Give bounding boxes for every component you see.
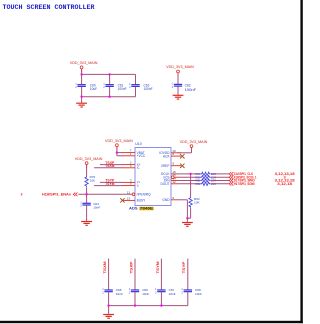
svg-text:AUX: AUX [163, 154, 170, 158]
ground (C62) [173, 95, 184, 100]
wire TSXP to C66 [134, 259, 136, 290]
svg-text:BUSY: BUSY [137, 199, 147, 203]
net label TSYM [105, 182, 115, 186]
pin 11 bubble [132, 193, 135, 196]
net label TSYP (rotated) [182, 261, 186, 274]
node ground rail [109, 305, 188, 307]
no-connect X pin 8 [180, 154, 184, 158]
U10 refdes [135, 142, 142, 146]
wire C63 bottom [135, 87, 137, 97]
wire to pin 1 [117, 155, 123, 157]
svg-text:TSXP: TSXP [129, 261, 133, 274]
sheet refs 3,12,13,18 [275, 179, 295, 183]
svg-text:10nF: 10nF [93, 205, 100, 209]
resistor R62 [189, 197, 201, 208]
svg-text:10K: 10K [194, 200, 200, 204]
U10 right pin stubs [171, 153, 181, 200]
net label F18/SPI1_SCS0_1 [234, 175, 257, 179]
wire C60 bottom [81, 87, 83, 97]
wire R70 to junction [86, 187, 88, 194]
svg-text:100nF: 100nF [118, 87, 127, 91]
svg-text:H16/SPI1_ENAx: H16/SPI1_ENAx [42, 193, 71, 197]
svg-text:13: 13 [127, 196, 131, 200]
svg-text:DOUT: DOUT [160, 182, 169, 186]
resistor R049 [195, 172, 216, 176]
wire TSXM to C65 [108, 259, 110, 290]
junction dot [108, 96, 110, 98]
capacitor C67 [155, 288, 176, 296]
junction dot GND/R62 [186, 217, 188, 219]
offpage chevron ENAx [73, 193, 77, 197]
net label H16/SPI1_ENAx [42, 193, 71, 197]
wire DCLK junction to R62 [190, 174, 192, 197]
sheet ref 3 [21, 193, 23, 197]
svg-text:VDD_3V3_MAIN: VDD_3V3_MAIN [105, 139, 133, 143]
resistor R052 [195, 182, 216, 186]
wire C61 top [109, 74, 111, 84]
U10 pin numbers [127, 149, 176, 201]
part number label [129, 207, 154, 211]
svg-text:3,12,18: 3,12,18 [277, 182, 292, 186]
junction dot ENAx/R70/C64 [85, 193, 87, 195]
ground (U10) [182, 222, 193, 227]
wire R049 to offpage [210, 173, 229, 175]
offpage chevron D17/SPI1_SIMO [229, 179, 233, 183]
svg-text:VDD_3V3_MAIN: VDD_3V3_MAIN [75, 157, 103, 161]
svg-text:100nF: 100nF [185, 88, 197, 92]
wire power down [116, 147, 118, 156]
resistor R70 [85, 175, 96, 187]
wire C64 to ground [86, 205, 88, 221]
ground (C64) [81, 221, 92, 226]
svg-text:U10: U10 [135, 142, 142, 146]
wire ENAx to pin 11 [78, 193, 132, 195]
pin 15 bubble [171, 176, 174, 179]
svg-text:VREF: VREF [161, 164, 170, 168]
wire R052 to offpage [210, 183, 229, 185]
wire TSYP [100, 181, 123, 183]
power symbol VDD_3V3_MAIN (top bank) [70, 61, 98, 73]
wire R62 down [187, 208, 190, 218]
junction dot pin7 branch [116, 151, 118, 153]
net label TSXM (rotated) [103, 261, 107, 273]
svg-text:10nF: 10nF [142, 292, 149, 296]
power symbol VDD_3V3_MAIN (U10 left) [105, 139, 133, 151]
junction dot [80, 96, 82, 98]
wire U10 to R051 [178, 180, 201, 182]
node bottom rail [82, 96, 136, 98]
wire GND pin 6 [178, 200, 188, 218]
svg-text:Y-: Y- [137, 184, 140, 188]
wire U10 to R052 [178, 183, 201, 185]
net label TSXP [105, 161, 115, 165]
op-amp U10 box [135, 148, 171, 206]
svg-text:R052: R052 [195, 182, 201, 186]
wire C68 to rail [187, 292, 189, 306]
U10 left pin stubs [123, 153, 136, 201]
ground (bottom bank) [103, 314, 114, 319]
wire TSYM [94, 185, 123, 187]
net label TSYM (rotated) [156, 261, 160, 273]
resistor R050 [195, 175, 216, 179]
no-connect X pin 13 [120, 198, 124, 202]
wire rail to ground [108, 306, 110, 314]
svg-text:VDD_3V3_MAIN: VDD_3V3_MAIN [166, 65, 194, 69]
svg-text:10K: 10K [90, 179, 96, 183]
svg-text:10uF: 10uF [90, 87, 97, 91]
junction dot [107, 304, 109, 306]
svg-text:7846E: 7846E [140, 207, 153, 211]
junction dot [108, 73, 110, 75]
wire C66 to rail [134, 292, 136, 306]
sheet refs 3,12,18 [277, 182, 292, 186]
capacitor C68 [182, 288, 203, 296]
node top rail [82, 73, 136, 75]
wire TSXP [100, 164, 123, 166]
power symbol VDD_3V3_MAIN (U10 right) [180, 140, 208, 152]
wire U10 to R049 [178, 173, 201, 175]
wire C63 top [135, 74, 137, 84]
net label C4#/SPI1_CLK [234, 172, 254, 176]
svg-text:100nF: 100nF [144, 87, 153, 91]
net label TSXM [105, 164, 115, 168]
border right [300, 0, 302, 323]
border bottom [0, 321, 303, 323]
svg-text:+VCC: +VCC [137, 154, 146, 158]
title text [3, 4, 95, 11]
capacitor C65 [102, 288, 123, 296]
net label H17/SPI1_SOMI [234, 182, 255, 186]
ground (top bank) [76, 103, 87, 108]
wire power to top rail [81, 69, 83, 75]
junction dot DCLK/R62 [189, 173, 191, 175]
svg-text:C62: C62 [185, 83, 191, 87]
svg-text:10nF: 10nF [116, 292, 123, 296]
resistor R051 [195, 179, 216, 183]
wire TSXM [94, 167, 123, 169]
capacitor C64 [80, 202, 100, 209]
junction dot [160, 304, 162, 306]
wire C65 to rail [108, 292, 110, 306]
wire power to R70 [86, 165, 88, 177]
wire U10 to R050 [178, 176, 201, 178]
junction dot [134, 304, 136, 306]
svg-text:H17/SPI1_SOMI: H17/SPI1_SOMI [234, 182, 255, 186]
capacitor C62 [172, 83, 196, 92]
offpage chevron F18/SPI1_SCS0_1 [229, 175, 233, 179]
capacitor C61 [103, 83, 126, 91]
power symbol VDD_3V3_MAIN (C62) [166, 65, 194, 77]
U10 pin names [137, 151, 171, 203]
wire rail to ground [81, 97, 83, 103]
wire C60 top [81, 74, 83, 84]
junction dot [80, 73, 82, 75]
net label D17/SPI1_SIMO [234, 179, 255, 183]
svg-text:GND: GND [162, 198, 170, 202]
sheet refs 3 [284, 175, 286, 179]
wire C62 to ground [177, 86, 179, 94]
svg-text:TSYM: TSYM [156, 261, 160, 273]
offpage chevron C4#/SPI1_CLK [229, 172, 233, 176]
wire power down pin10 [178, 148, 192, 153]
wire R051 to offpage [210, 180, 229, 182]
wire TSYM to C67 [160, 259, 162, 290]
wire power to C62 [177, 73, 179, 84]
wire R050 to offpage [210, 176, 229, 178]
wire junction to C64 [86, 194, 88, 203]
sheet refs 3,12,13,18 [275, 172, 295, 176]
power symbol VDD_3V3_MAIN (R70) [75, 157, 103, 169]
capacitor C60 [75, 83, 97, 91]
capacitor C66 [129, 288, 150, 296]
net label TSYP [105, 179, 115, 183]
offpage chevron H17/SPI1_SOMI [229, 182, 233, 186]
svg-text:3: 3 [21, 193, 23, 197]
svg-text:10nF: 10nF [169, 292, 176, 296]
svg-text:X-: X- [137, 166, 140, 170]
svg-text:TSYP: TSYP [182, 261, 186, 274]
svg-text:TOUCH SCREEN CONTROLLER: TOUCH SCREEN CONTROLLER [3, 4, 95, 11]
svg-text:TSXM: TSXM [103, 261, 107, 273]
svg-text:ADS: ADS [129, 207, 138, 211]
svg-text:VDD_3V3_MAIN: VDD_3V3_MAIN [180, 140, 208, 144]
wire to pin 7 [117, 152, 123, 154]
wire TSYP to C68 [187, 259, 189, 290]
svg-text:11: 11 [127, 190, 130, 194]
wire C61 bottom [109, 87, 111, 97]
svg-text:10nF: 10nF [195, 292, 202, 296]
svg-text:nPENIRQ: nPENIRQ [137, 193, 152, 197]
wire to ground [186, 218, 188, 222]
svg-text:VDD_3V3_MAIN: VDD_3V3_MAIN [70, 61, 98, 65]
capacitor C63 [129, 83, 152, 91]
net label TSXP (rotated) [129, 261, 133, 274]
no-connect X pin 9 [180, 164, 184, 168]
wire C67 to rail [160, 292, 162, 306]
